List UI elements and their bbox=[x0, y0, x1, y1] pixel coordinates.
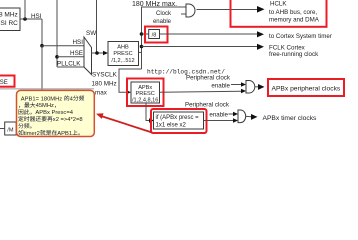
svg-text:APB1: APB1 bbox=[57, 131, 72, 137]
svg-text:if (APBx presc =: if (APBx presc = bbox=[156, 115, 200, 121]
wire HSI into mux bbox=[42, 45, 84, 47]
wire AHB output stub to HCLK trunk bbox=[139, 51, 142, 53]
arrow into APBx prescaler bbox=[126, 90, 131, 94]
wire PLLCLK into mux bbox=[57, 66, 84, 68]
wire into /M bbox=[0, 128, 5, 130]
svg-text:180 MHz: 180 MHz bbox=[92, 81, 117, 88]
svg-text:HSI: HSI bbox=[73, 39, 84, 46]
wire HCLK gate output bbox=[197, 9, 259, 11]
svg-text:enable: enable bbox=[209, 112, 228, 119]
node junction HSE bbox=[55, 55, 59, 59]
svg-text:/8: /8 bbox=[152, 33, 157, 39]
wire from APBx prescaler down to timer multiplier bbox=[146, 103, 149, 121]
svg-text:HSE: HSE bbox=[70, 50, 83, 57]
svg-text:/1,2,4,8,16: /1,2,4,8,16 bbox=[132, 97, 158, 103]
svg-text:AHB: AHB bbox=[117, 45, 129, 51]
arrow enable2 bbox=[233, 112, 238, 116]
arrow APBx clock into gate1 bbox=[241, 89, 246, 93]
svg-text:enable: enable bbox=[211, 82, 230, 89]
arrow enable1 bbox=[241, 82, 246, 86]
arrow timer clock into gate2 bbox=[233, 118, 238, 122]
svg-text:free-running clock: free-running clock bbox=[269, 51, 319, 58]
node junction SYSCLK bbox=[95, 51, 99, 55]
wire HSI from oscillator to corner bbox=[20, 18, 42, 20]
wire enable stub into gate bbox=[181, 13, 186, 15]
wire HCLK trunk vertical bbox=[142, 7, 187, 69]
gate AND timer clock 2 bbox=[238, 110, 246, 123]
wire FCLK bbox=[142, 46, 259, 48]
wire HSE into mux bbox=[57, 56, 84, 58]
svg-text:PLLCLK: PLLCLK bbox=[57, 60, 81, 67]
arrow into AHB prescaler bbox=[103, 51, 108, 55]
annotation red box around HCLK output bbox=[231, 0, 327, 27]
svg-text:APB1= 180MHz: APB1= 180MHz bbox=[21, 96, 63, 102]
annotation red box around APBx PRESC bbox=[127, 79, 164, 107]
svg-text:APBx peripheral clocks: APBx peripheral clocks bbox=[272, 86, 341, 93]
svg-text:http://blog.csdn.net/: http://blog.csdn.net/ bbox=[147, 69, 225, 76]
wire to /8 divider bbox=[142, 33, 149, 35]
oscillator box HSI RC (8 MHz HSI RC, clipped at left edge) bbox=[0, 8, 20, 31]
wire HCLK trunk jog down to APBx prescaler bbox=[119, 69, 142, 92]
node junction /8 tap bbox=[140, 32, 144, 36]
wire APBx clock to gate 1 bbox=[160, 91, 242, 92]
arrow into timer multiplier box bbox=[149, 118, 154, 122]
svg-text:SW: SW bbox=[86, 30, 96, 37]
svg-text:45MHz: 45MHz bbox=[36, 103, 54, 109]
svg-text:8 MHz: 8 MHz bbox=[0, 12, 18, 19]
svg-text:memory and DMA: memory and DMA bbox=[269, 17, 320, 24]
svg-text:HCLK: HCLK bbox=[270, 1, 287, 8]
svg-text:max: max bbox=[95, 89, 108, 96]
wire SYSCLK mux output bbox=[92, 52, 105, 54]
svg-text:/1,2,..512: /1,2,..512 bbox=[111, 58, 134, 64]
divider box /8 bbox=[149, 30, 160, 39]
wire HSE vertical from top edge bbox=[56, 0, 58, 67]
svg-text:timer2: timer2 bbox=[24, 131, 40, 137]
svg-text:to Cortex System timer: to Cortex System timer bbox=[269, 33, 332, 40]
box timer multiplier if (APBx presc = 1) x1 else x2 bbox=[154, 112, 204, 129]
wire gate1 output bbox=[255, 86, 259, 88]
wire SYSCLK to top edge bbox=[96, 0, 98, 53]
gate AND clock-enable HCLK bbox=[186, 4, 195, 17]
svg-text:Peripheral clock: Peripheral clock bbox=[185, 102, 230, 109]
svg-text:/M: /M bbox=[7, 128, 14, 134]
wire enable1 to gate1 bbox=[231, 84, 242, 86]
arrow to Cortex System timer bbox=[257, 31, 264, 37]
annotation red box around /8 bbox=[145, 27, 168, 43]
svg-text:to AHB bus, core,: to AHB bus, core, bbox=[269, 9, 317, 16]
wire gate2 output bbox=[246, 115, 252, 117]
svg-text:SYSCLK: SYSCLK bbox=[92, 72, 118, 79]
gate AND peripheral clock 1 bbox=[246, 81, 255, 94]
annotation red box HSE (clipped at left) bbox=[0, 76, 15, 87]
arrow to APBx timer clocks bbox=[251, 114, 258, 120]
wire /8 output to Cortex timer bbox=[160, 33, 259, 35]
svg-text:x2 =>4*2=8: x2 =>4*2=8 bbox=[53, 117, 83, 123]
svg-text:1x1 else x2: 1x1 else x2 bbox=[156, 123, 187, 129]
arrow to APBx peripheral clocks bbox=[258, 84, 265, 90]
svg-text:HSI: HSI bbox=[31, 13, 42, 20]
arrow HCLK bbox=[257, 6, 265, 13]
mux SW (system clock selector) bbox=[84, 37, 92, 75]
svg-text:PRESC: PRESC bbox=[113, 51, 132, 57]
annotation red arrow from multiplier note bbox=[101, 116, 152, 133]
annotation red box around APBx peripheral clocks bbox=[268, 79, 344, 96]
svg-text:APBx: APBx bbox=[138, 85, 152, 91]
svg-text:Clock: Clock bbox=[156, 11, 172, 17]
annotation tooltip APB1 note (yellow) bbox=[17, 90, 95, 136]
wire horizontal behind tooltip bbox=[0, 88, 94, 90]
node junction on HSI wire bbox=[23, 17, 27, 21]
divider box APBx PRESC /1,2,4,8,16 bbox=[131, 82, 160, 103]
wire timer clock from multiplier to gate2 bbox=[204, 120, 234, 122]
svg-text:APBx timer clocks: APBx timer clocks bbox=[263, 115, 318, 122]
divider box /M bbox=[5, 122, 17, 135]
divider box AHB PRESC /1,2,..512 bbox=[108, 42, 139, 66]
svg-text:PRESC: PRESC bbox=[136, 91, 155, 97]
wire HSI vertical to top edge bbox=[24, 0, 26, 19]
arrow FCLK bbox=[257, 44, 264, 50]
svg-text:Peripheral clock: Peripheral clock bbox=[186, 75, 231, 82]
svg-text:HSI RC: HSI RC bbox=[0, 20, 18, 27]
svg-text:180 MHz max.: 180 MHz max. bbox=[132, 1, 177, 8]
svg-text:enable: enable bbox=[153, 19, 172, 25]
wire HSI continues down (behind tooltip) bbox=[41, 46, 43, 90]
node junction FCLK tap bbox=[140, 45, 144, 49]
svg-text:APBx Presc=4: APBx Presc=4 bbox=[35, 110, 73, 116]
node junction HSI drop bbox=[40, 44, 44, 48]
svg-text:HSE: HSE bbox=[0, 80, 8, 86]
wire HSI down to mux row bbox=[41, 19, 43, 46]
annotation red box around timer multiplier bbox=[151, 109, 207, 133]
wire enable2 to gate2 bbox=[229, 113, 234, 115]
